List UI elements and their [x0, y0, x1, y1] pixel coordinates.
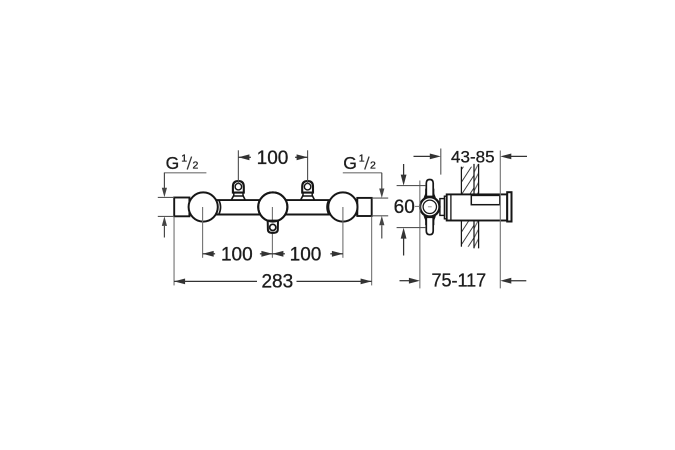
ball joint 2 outline overlay: [258, 192, 287, 221]
tick 60 top: [397, 185, 426, 187]
dimension top 100 arrows: [238, 154, 249, 160]
left end fitting (G 1/2 thread): [174, 198, 189, 217]
arrow up to thread bottom right: [379, 216, 384, 226]
extension line top-100 right: [307, 150, 309, 183]
mounting bracket right (top): [301, 196, 315, 200]
ball joint 1: [189, 192, 218, 221]
ball joint 3: [328, 192, 357, 221]
extension line 283 right: [371, 217, 373, 286]
leader underline G1/2 right: [343, 172, 382, 174]
dimension 75-117 arrows: [400, 280, 410, 282]
rough-in body cylinder: [447, 194, 508, 220]
leader dash 60 to valve: [415, 205, 420, 207]
svg-text:2: 2: [193, 159, 199, 171]
inner sleeve: [471, 195, 500, 204]
thread tick bottom left: [158, 215, 174, 217]
svg-text:2: 2: [370, 159, 376, 171]
bottom outlet bracket: [268, 221, 278, 233]
leader arrow G1/2 right (down): [381, 173, 383, 190]
dimension 100-100 arrows: [203, 251, 214, 257]
thread tick bottom right: [372, 215, 389, 217]
svg-text:283: 283: [261, 272, 293, 293]
svg-text:1: 1: [181, 153, 187, 165]
right end fitting (G 1/2 thread): [357, 198, 371, 216]
thread tick top left: [158, 196, 174, 198]
thread tick top right: [372, 197, 389, 199]
wire bar bottom edge: [189, 214, 359, 216]
tick 60 bottom: [397, 227, 426, 229]
svg-text:100: 100: [221, 244, 253, 265]
extension line from ball 1 centre: [202, 207, 204, 258]
valve top connection stub: [425, 193, 435, 197]
wire bar top edge: [189, 199, 359, 201]
leader arrow G1/2 left (down): [163, 173, 165, 190]
extension line 43-85 left: [440, 149, 442, 175]
extension line top-100 left: [237, 150, 239, 183]
dimension 60 arrows: [403, 164, 405, 177]
extension line 75-117 left: [419, 181, 421, 289]
extension line 283 left: [173, 217, 175, 286]
wall section lower: [461, 221, 474, 247]
mounting bracket left (top): [231, 196, 245, 200]
valve bottom connection stub: [425, 217, 435, 221]
extension line from ball 2 centre: [271, 207, 273, 258]
end flange: [507, 192, 511, 221]
leader underline G1/2 left: [164, 172, 207, 174]
union connector valve-to-body: [444, 196, 446, 219]
wall section upper: [461, 167, 474, 195]
svg-text:75-117: 75-117: [431, 270, 486, 290]
extension line from ball 3 centre: [342, 207, 344, 258]
svg-text:100: 100: [257, 148, 289, 169]
dimension 43-85 arrows: [414, 155, 431, 157]
svg-text:100: 100: [290, 244, 322, 265]
valve body circle: [420, 197, 439, 216]
svg-text:43-85: 43-85: [451, 148, 494, 167]
ball joint 2 (middle): [258, 192, 287, 221]
valve centre mark: [428, 206, 432, 208]
socket arc left of ball 3: [327, 200, 329, 215]
socket arc right of ball 1: [219, 200, 221, 215]
extension line right (43-85 / 75-117): [499, 151, 501, 289]
svg-text:60: 60: [394, 197, 415, 218]
svg-text:G: G: [166, 153, 180, 173]
svg-text:G: G: [343, 153, 357, 173]
svg-text:1: 1: [359, 153, 365, 165]
arrow up to thread bottom left: [162, 216, 167, 226]
dimension 283 line + arrows: [174, 279, 185, 285]
